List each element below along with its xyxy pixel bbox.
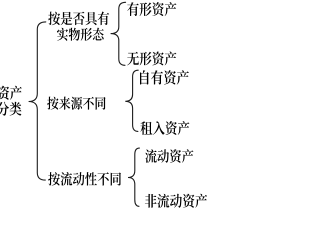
brace connector from 按来源不同 to 自有资产/租入资产 (125, 70, 138, 131)
node 按来源不同 (47, 97, 105, 110)
node 流动资产 (145, 149, 193, 163)
node 有形资产 (127, 2, 176, 16)
node 非流动资产 (145, 194, 207, 208)
brace connector from 按是否具有实物形态 to 有形资产/无形资产 (111, 2, 126, 65)
node 按是否具有实物形态 line 2 (实物形态) (57, 28, 104, 41)
brace connector from 按流动性不同 to 流动资产/非流动资产 (128, 148, 139, 206)
node 租入资产 (140, 121, 189, 135)
brace connector from 资产分类 to the three classification branches (29, 22, 46, 180)
node 资产分类 line 1 (资产) (0, 86, 22, 100)
node 自有资产 (140, 70, 189, 84)
node 按是否具有实物形态 line 1 (按是否具有) (48, 12, 109, 26)
node 按流动性不同 (48, 172, 121, 186)
node 无形资产 (127, 52, 176, 66)
node 资产分类 line 2 (分类) (0, 102, 22, 116)
